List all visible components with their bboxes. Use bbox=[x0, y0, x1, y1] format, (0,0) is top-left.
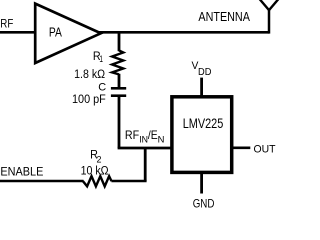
antenna lead wire bbox=[268, 10, 271, 34]
antenna symbol V arms bbox=[260, 0, 279, 10]
svg-text:OUT: OUT bbox=[254, 144, 276, 156]
svg-text:10 kΩ: 10 kΩ bbox=[81, 164, 109, 178]
wire R2 to enable branch bbox=[111, 180, 146, 183]
pin VDD stub bbox=[200, 78, 203, 97]
wire ENABLE to R2 bbox=[0, 180, 84, 183]
svg-text:DD: DD bbox=[198, 67, 211, 78]
IC U1 LMV225 box bbox=[172, 97, 232, 173]
resistor R2 zigzag bbox=[83, 176, 112, 186]
wire capacitor to RFIN node bbox=[118, 96, 121, 148]
svg-text:ANTENNA: ANTENNA bbox=[198, 9, 250, 24]
pin GND stub bbox=[200, 173, 203, 194]
wire RFIN horizontal into LMV225 bbox=[118, 147, 172, 150]
svg-text:RF: RF bbox=[125, 129, 139, 142]
svg-text:100 pF: 100 pF bbox=[72, 92, 106, 106]
pin label RF_IN/E_N bbox=[125, 129, 165, 145]
svg-text:/E: /E bbox=[148, 129, 158, 142]
svg-text:1.8 kΩ: 1.8 kΩ bbox=[74, 67, 105, 81]
svg-text:ENABLE: ENABLE bbox=[0, 164, 43, 178]
pin OUT stub bbox=[232, 147, 250, 150]
svg-text:RF: RF bbox=[0, 17, 13, 31]
svg-text:GND: GND bbox=[193, 197, 215, 211]
capacitor C bottom plate bbox=[111, 94, 126, 97]
svg-text:IN: IN bbox=[139, 134, 148, 145]
op-amp PA (power amplifier triangle) bbox=[35, 4, 101, 63]
wire RF input to PA bbox=[0, 31, 35, 34]
wire PA output to antenna bbox=[99, 31, 269, 34]
wire enable branch down from RFIN wire bbox=[144, 148, 147, 181]
svg-text:LMV225: LMV225 bbox=[183, 116, 224, 132]
capacitor C top plate bbox=[111, 87, 126, 90]
resistor R1 zigzag bbox=[112, 50, 123, 74]
svg-text:PA: PA bbox=[49, 26, 62, 40]
wire R1 to capacitor C bbox=[118, 74, 121, 88]
svg-text:N: N bbox=[158, 134, 165, 145]
wire junction branch down to R1 bbox=[118, 32, 121, 51]
svg-text:1: 1 bbox=[99, 54, 103, 65]
